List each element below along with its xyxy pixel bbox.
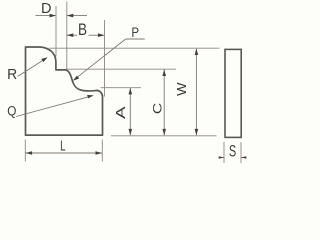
svg-text:L: L (60, 138, 65, 155)
dimension A (129, 88, 133, 135)
svg-text:S: S (229, 142, 236, 161)
extension line C top (66, 68, 176, 70)
extension line L right (101, 140, 103, 162)
svg-text:B: B (78, 21, 87, 40)
dimension B (67, 33, 105, 37)
svg-text:A: A (115, 106, 128, 119)
leader Q (16, 95, 94, 117)
extension line L left (24, 140, 26, 162)
dimension C (162, 70, 166, 136)
svg-text:R: R (7, 67, 17, 84)
leader R (18, 57, 48, 76)
wire: bottom edge emphasized (26, 134, 103, 136)
extension line D right / B left (66, 2, 68, 70)
dimension W (195, 49, 199, 136)
extension baseline bottom (111, 135, 217, 137)
leader P (73, 39, 145, 81)
extension line S left (223, 142, 225, 163)
dimension D (36, 14, 88, 18)
svg-text:C: C (150, 103, 164, 114)
svg-text:Q: Q (7, 103, 16, 119)
svg-text:P: P (131, 24, 139, 40)
side view rectangle (225, 49, 241, 137)
extension line D left / arc center tick (55, 6, 57, 57)
svg-text:W: W (175, 82, 189, 96)
extension line A top / center mark (101, 87, 142, 89)
dimension L (26, 151, 102, 155)
svg-text:D: D (41, 1, 51, 17)
dimension S (219, 156, 247, 159)
extension line W top (49, 47, 220, 49)
extension line B right / lower center tick (104, 20, 106, 97)
profile outline (front view of knife) (26, 47, 103, 135)
extension line S right (240, 142, 242, 163)
